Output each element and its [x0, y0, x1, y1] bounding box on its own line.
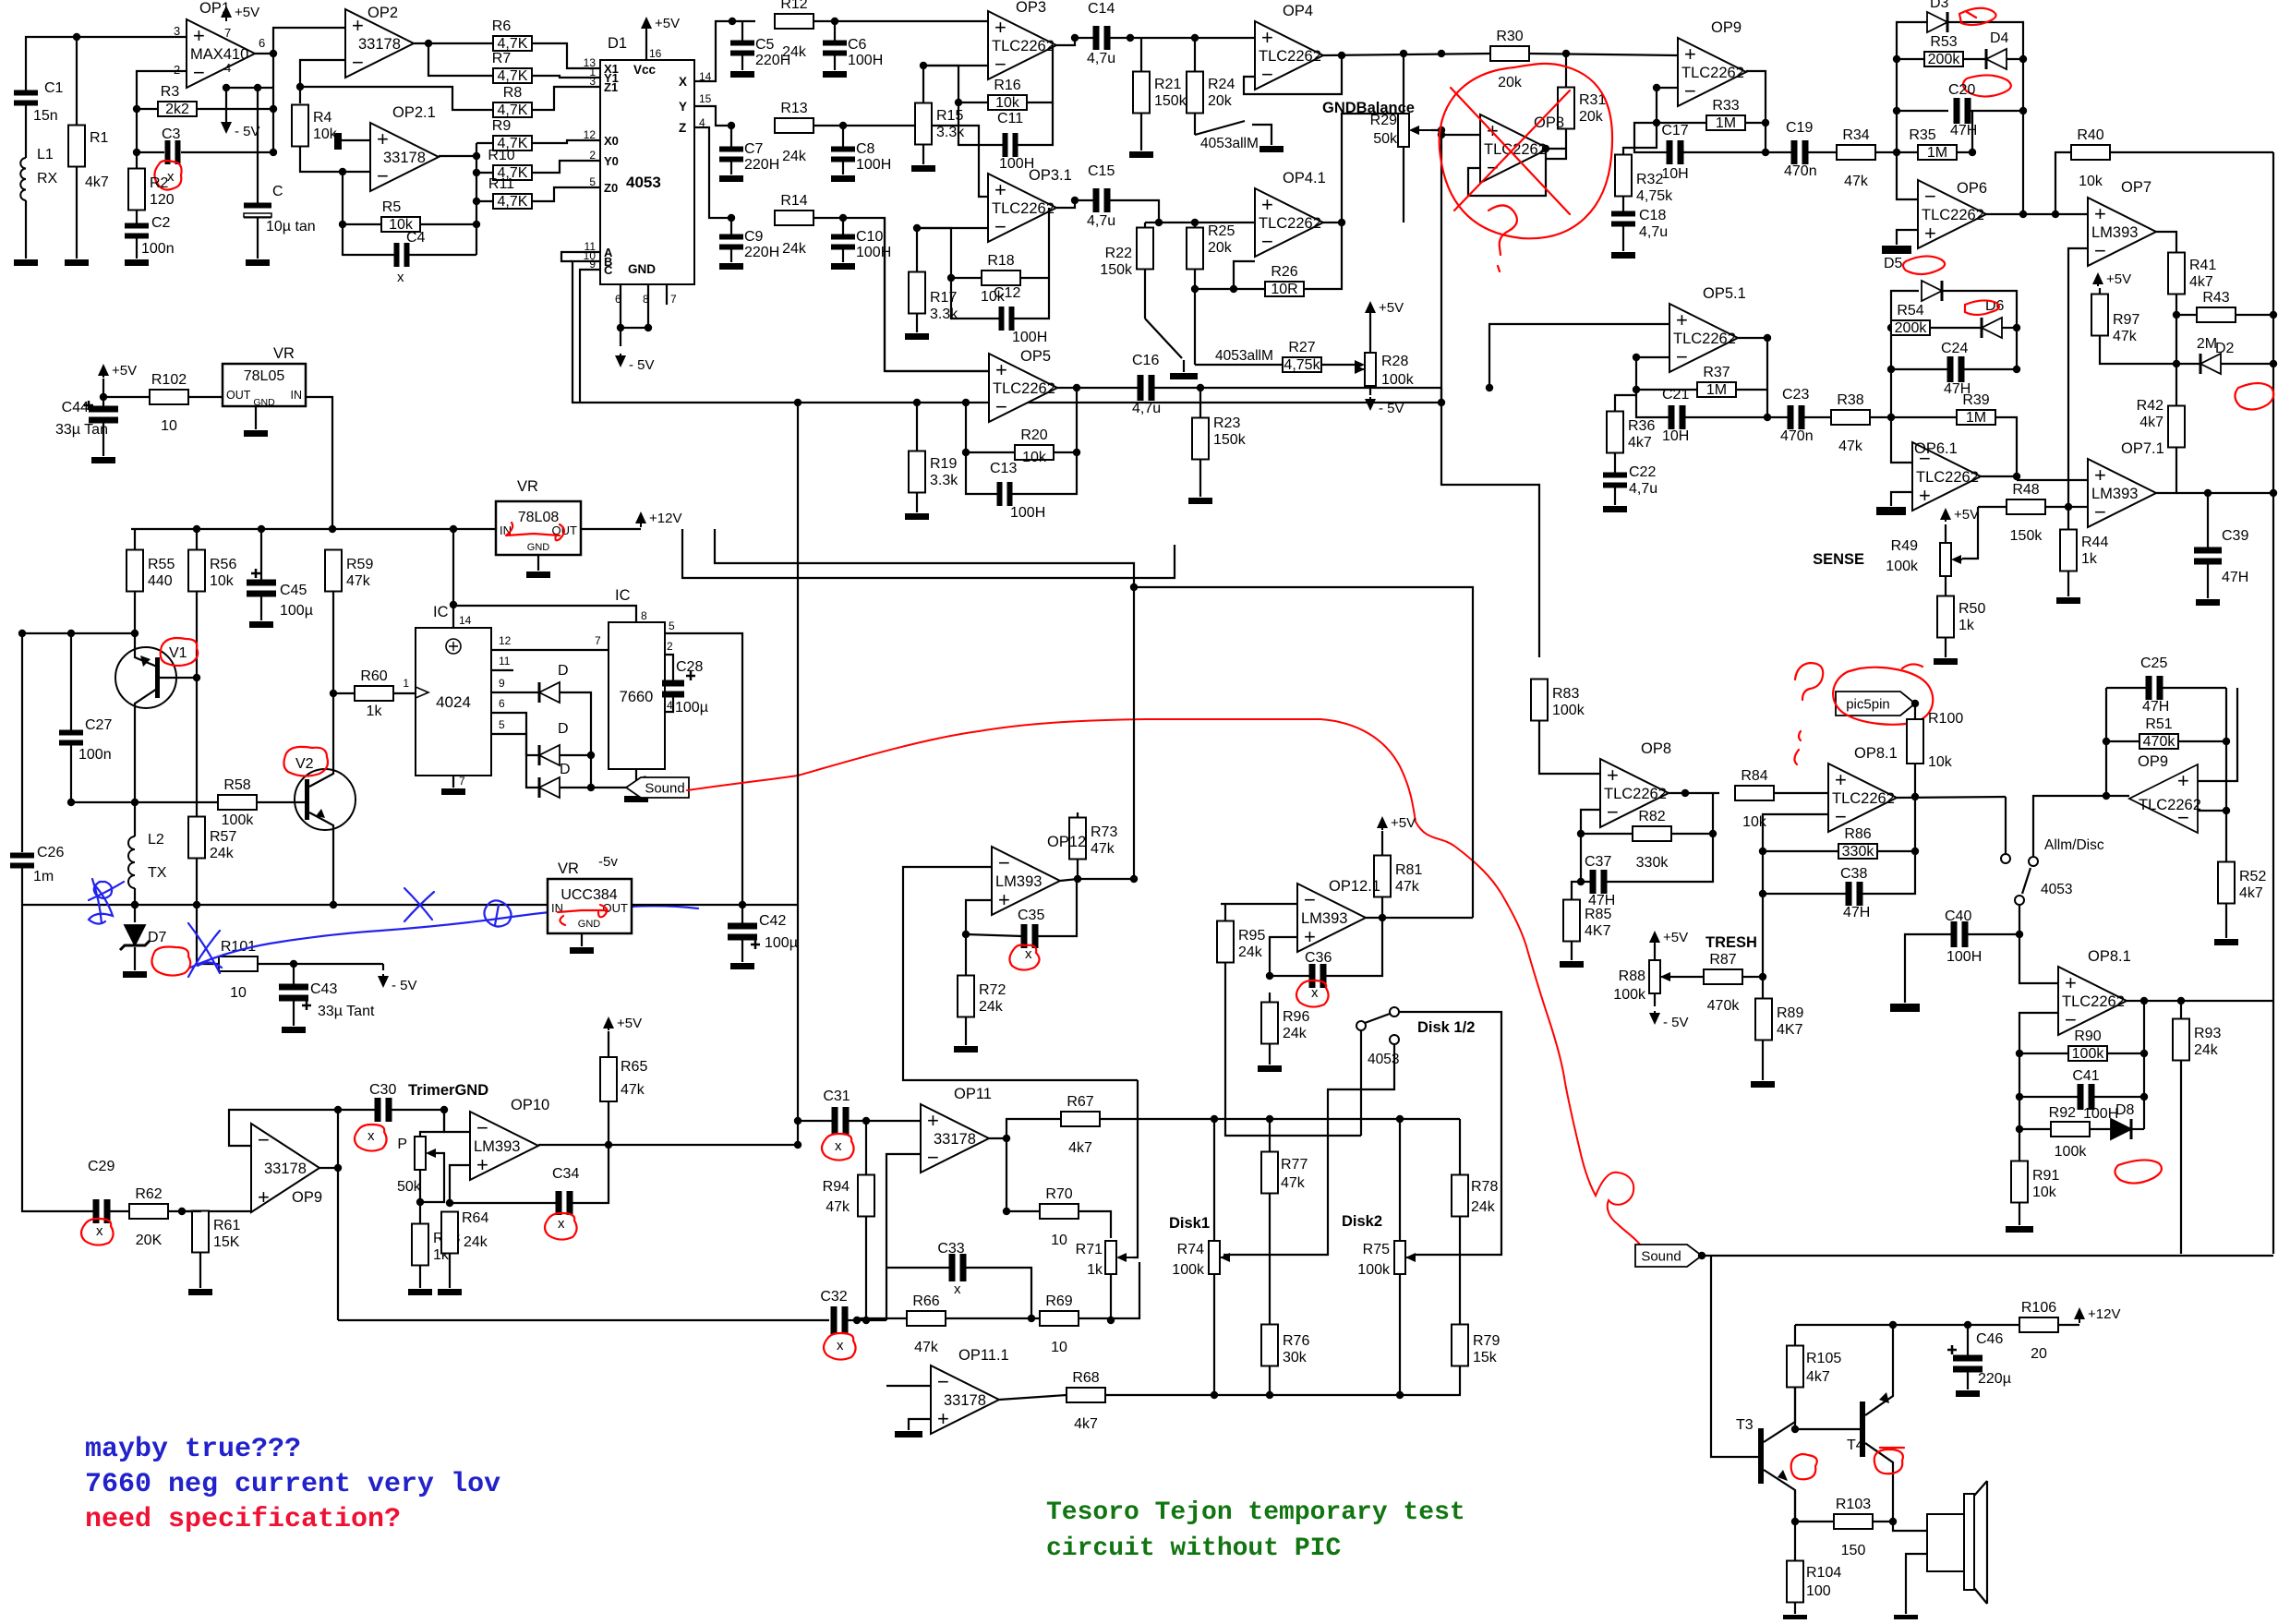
svg-text:6: 6 — [259, 36, 265, 50]
resistor R70 — [1040, 1204, 1079, 1219]
-5V arrow R28 — [1369, 386, 1371, 395]
diode D5 — [1922, 281, 1942, 301]
switch Allm/Disc — [2001, 854, 2010, 863]
wire C42 — [741, 905, 743, 926]
wire R18 left — [917, 228, 982, 278]
svg-text:47k: 47k — [1091, 841, 1115, 857]
svg-text:7: 7 — [670, 293, 677, 306]
+5V arrow C44 — [98, 364, 109, 376]
svg-text:440: 440 — [148, 573, 173, 589]
wire R30 right — [1529, 54, 1678, 55]
svg-text:D: D — [560, 762, 571, 777]
svg-text:TLC2262: TLC2262 — [1916, 469, 1979, 486]
resistor R53 — [1924, 52, 1963, 66]
wire OP11.1 plus gnd — [909, 1419, 931, 1430]
wire Disk switch common — [1360, 1030, 1362, 1136]
wire OP8 plus wiper — [1441, 134, 1480, 136]
wire OP6 plus gnd — [1897, 230, 1918, 245]
svg-text:R106: R106 — [2021, 1300, 2056, 1316]
resistor R96 — [1261, 1003, 1278, 1044]
svg-text:TLC2262: TLC2262 — [1259, 48, 1321, 65]
diode D3 — [1927, 12, 1947, 32]
svg-text:+: + — [2065, 971, 2077, 994]
svg-text:4,75k: 4,75k — [1284, 357, 1320, 373]
resistor R33 — [1706, 115, 1745, 130]
svg-text:R40: R40 — [2077, 127, 2103, 143]
resistor R97 — [2091, 295, 2108, 336]
svg-text:24k: 24k — [979, 999, 1004, 1015]
svg-text:pic5pin: pic5pin — [1846, 697, 1890, 713]
svg-text:OP4.1: OP4.1 — [1283, 170, 1326, 186]
ground R61 — [188, 1289, 212, 1295]
wire R67 right bus — [1100, 1118, 1460, 1120]
resistor R39 — [1957, 410, 1995, 425]
svg-text:C28: C28 — [676, 659, 703, 675]
wire L2 — [134, 802, 136, 836]
svg-text:C40: C40 — [1945, 908, 1971, 924]
capacitor C1 — [14, 90, 38, 96]
svg-text:470k: 470k — [1707, 998, 1741, 1014]
resistor R67 — [1061, 1112, 1100, 1126]
wire C27 — [70, 633, 72, 732]
svg-text:+: + — [2094, 463, 2106, 487]
svg-text:24k: 24k — [1471, 1199, 1496, 1215]
wire 4053 bottom bus right — [1441, 388, 1539, 657]
svg-text:+5V: +5V — [112, 363, 137, 379]
svg-text:R43: R43 — [2202, 290, 2229, 306]
wire OP9b out vertical — [337, 1110, 339, 1320]
ground R21 — [1129, 151, 1153, 158]
svg-text:MAX410: MAX410 — [190, 46, 248, 63]
wire 78L08 gnd — [537, 555, 539, 571]
wire R5 left — [343, 172, 381, 224]
capacitor C7 — [719, 147, 743, 152]
wire C33 — [886, 1267, 950, 1269]
svg-text:C46: C46 — [1976, 1331, 2003, 1347]
wire R3 left — [137, 108, 158, 110]
resistor R93 — [2173, 1019, 2189, 1061]
svg-text:OP9: OP9 — [292, 1189, 322, 1206]
svg-text:x: x — [954, 1281, 961, 1297]
svg-text:R65: R65 — [621, 1059, 647, 1075]
svg-text:Disk 1/2: Disk 1/2 — [1417, 1019, 1475, 1036]
svg-text:C43: C43 — [310, 981, 337, 997]
svg-text:2M: 2M — [2197, 336, 2217, 352]
svg-text:−: − — [1924, 185, 1936, 208]
transistor T3 — [1758, 1428, 1764, 1484]
svg-text:x: x — [397, 270, 404, 285]
wire C4 left — [343, 224, 394, 255]
svg-text:Disk1: Disk1 — [1169, 1215, 1210, 1232]
svg-text:Sound: Sound — [645, 781, 684, 797]
svg-text:x: x — [96, 1223, 103, 1239]
svg-text:C27: C27 — [85, 717, 112, 733]
wire OP12 out — [1060, 879, 1134, 881]
wire OP8.1b minus rail — [2019, 1013, 2058, 1191]
resistor R36 — [1607, 412, 1623, 453]
wire P wiper return — [420, 1153, 444, 1202]
svg-text:−: − — [476, 1116, 488, 1139]
wire C30 — [338, 1109, 376, 1111]
svg-text:LM393: LM393 — [474, 1138, 520, 1155]
svg-text:D: D — [558, 663, 569, 679]
svg-text:−: − — [1684, 79, 1696, 102]
svg-text:R2: R2 — [150, 175, 169, 191]
svg-text:100n: 100n — [78, 747, 112, 763]
svg-text:Vcc: Vcc — [633, 63, 657, 77]
wire R106 — [1968, 1324, 2019, 1326]
svg-text:8: 8 — [643, 293, 649, 306]
svg-text:6: 6 — [615, 293, 621, 306]
svg-text:R70: R70 — [1045, 1186, 1072, 1202]
svg-text:4053: 4053 — [2041, 882, 2072, 897]
wire Disk switch top to R75 wiper — [1399, 1012, 1501, 1255]
svg-text:T3: T3 — [1736, 1417, 1754, 1433]
svg-text:V1: V1 — [169, 645, 187, 661]
resistor R83 — [1531, 680, 1548, 721]
wire to cap C — [226, 87, 273, 89]
svg-text:R78: R78 — [1471, 1179, 1498, 1195]
wire C12 — [951, 278, 999, 319]
red scribble near T4 — [1874, 1448, 1904, 1474]
svg-text:C11: C11 — [997, 111, 1023, 126]
wire R90 — [2019, 1053, 2068, 1054]
svg-text:SENSE: SENSE — [1813, 551, 1864, 568]
ground C42 — [730, 963, 754, 969]
svg-text:−: − — [937, 1370, 949, 1393]
svg-text:x: x — [1025, 946, 1032, 962]
svg-text:50k: 50k — [397, 1179, 422, 1195]
wire R77 — [1269, 1119, 1271, 1151]
wire D2 — [2176, 363, 2200, 365]
resistor R72 — [958, 976, 974, 1017]
wire OP8.1 minus loop — [1763, 814, 1828, 975]
wire R16 left — [923, 66, 988, 102]
wire OP10 out up — [609, 1144, 798, 1146]
svg-text:4k7: 4k7 — [1068, 1140, 1092, 1156]
svg-text:R102: R102 — [151, 372, 187, 388]
svg-text:47k: 47k — [1281, 1175, 1306, 1191]
svg-text:9: 9 — [499, 677, 505, 690]
wire R4 bottom — [300, 147, 370, 172]
svg-text:6: 6 — [499, 697, 505, 710]
diode D a — [539, 682, 560, 703]
svg-text:R100: R100 — [1928, 711, 1963, 727]
resistor R79 — [1452, 1325, 1468, 1366]
resistor R64 — [441, 1212, 458, 1254]
wire R6 to X1 — [532, 43, 600, 68]
ground C5 — [730, 71, 754, 78]
wire OP5.1 out — [1738, 337, 1767, 339]
wire R95 — [1224, 904, 1226, 921]
svg-text:R50: R50 — [1959, 601, 1985, 617]
svg-text:12: 12 — [499, 634, 512, 647]
wire Y out to R13 — [694, 106, 731, 126]
svg-text:1M: 1M — [1706, 382, 1727, 398]
wire OP9 minus — [1657, 88, 1678, 123]
wire OP3.1 out — [1056, 200, 1094, 208]
op-amp OP9 right — [2129, 764, 2198, 833]
resistor R77 — [1261, 1152, 1278, 1194]
svg-text:R79: R79 — [1473, 1333, 1500, 1349]
svg-text:47k: 47k — [1395, 879, 1420, 895]
ground C22 — [1603, 506, 1627, 512]
resistor R8 — [493, 102, 532, 117]
svg-text:VR: VR — [517, 478, 538, 495]
svg-text:OUT: OUT — [226, 389, 251, 402]
red scribble near D2 — [2235, 383, 2273, 410]
svg-text:+: + — [1607, 764, 1619, 787]
svg-text:100H: 100H — [848, 53, 883, 68]
svg-text:Sound: Sound — [1641, 1249, 1681, 1265]
svg-text:10k: 10k — [210, 573, 235, 589]
svg-text:220H: 220H — [744, 157, 779, 173]
svg-text:C3: C3 — [162, 126, 181, 142]
wire OP12.1 out — [1366, 917, 1473, 919]
svg-text:24k: 24k — [1283, 1026, 1308, 1041]
potentiometer P — [415, 1137, 426, 1170]
wire OP9r minus down — [2225, 811, 2227, 862]
svg-text:+5V: +5V — [617, 1016, 642, 1031]
capacitor C15 — [1093, 188, 1100, 212]
wire L1-gnd — [25, 200, 27, 259]
svg-text:D7: D7 — [148, 930, 167, 945]
svg-text:+: + — [1676, 308, 1688, 331]
svg-text:33178: 33178 — [383, 150, 426, 166]
svg-text:TrimerGND: TrimerGND — [408, 1082, 488, 1099]
svg-text:47k: 47k — [621, 1082, 645, 1098]
wire R36 top — [1615, 395, 1636, 412]
svg-text:x: x — [1311, 985, 1319, 1001]
wire OP11 out down — [1006, 1138, 1007, 1211]
svg-text:−: − — [995, 395, 1007, 418]
wire R12-C6 — [814, 20, 988, 22]
resistor R35 — [1918, 145, 1957, 160]
svg-text:+: + — [994, 178, 1006, 201]
capacitor C17 — [1667, 140, 1673, 164]
svg-text:−: − — [927, 1146, 939, 1169]
svg-text:R35: R35 — [1909, 127, 1935, 143]
svg-text:4k7: 4k7 — [85, 174, 109, 190]
svg-text:R29: R29 — [1370, 113, 1397, 128]
resistor R3 — [158, 102, 197, 116]
svg-text:7: 7 — [224, 26, 231, 40]
potentiometer R28 — [1365, 353, 1376, 386]
svg-text:+: + — [995, 358, 1007, 381]
diode D6 — [1982, 318, 2002, 338]
pin 3 7660 gnd — [635, 769, 637, 795]
wire C14 right — [1109, 37, 1255, 39]
svg-text:C25: C25 — [2140, 656, 2167, 671]
svg-text:100k: 100k — [1552, 703, 1585, 718]
potentiometer R71 — [1105, 1241, 1116, 1274]
resistor R34 — [1837, 145, 1875, 160]
svg-text:R97: R97 — [2113, 312, 2139, 328]
svg-text:4K7: 4K7 — [1777, 1022, 1803, 1038]
svg-text:R55: R55 — [148, 557, 175, 572]
svg-text:R60: R60 — [360, 668, 387, 684]
wire R48 — [1978, 506, 2007, 508]
svg-text:470n: 470n — [1780, 428, 1814, 444]
wire C20 right — [1970, 110, 2023, 112]
wire C2-gnd — [136, 237, 138, 259]
svg-text:TLC2262: TLC2262 — [1681, 65, 1744, 81]
wire OP9r minus — [2198, 688, 2226, 811]
wire Sound2 down to T3 — [1711, 1256, 1758, 1457]
op-amp OP8 crossed — [1480, 114, 1549, 183]
svg-text:R89: R89 — [1777, 1005, 1803, 1021]
svg-text:OP9: OP9 — [2138, 753, 2168, 770]
svg-text:100n: 100n — [141, 241, 175, 257]
svg-text:−: − — [1261, 230, 1273, 253]
svg-text:TLC2262: TLC2262 — [1259, 215, 1321, 232]
svg-text:R36: R36 — [1628, 418, 1655, 434]
wire to R9 — [476, 142, 493, 144]
wire R78 — [1459, 1119, 1461, 1174]
svg-text:8: 8 — [641, 609, 647, 622]
wire OP7.1 out — [2156, 448, 2176, 493]
svg-text:C14: C14 — [1088, 1, 1115, 17]
svg-text:X0: X0 — [604, 134, 619, 148]
svg-text:47H: 47H — [1944, 381, 1971, 397]
resistor R50 — [1937, 596, 1954, 638]
capacitor C16 — [1138, 375, 1144, 401]
ground C — [246, 259, 270, 266]
svg-text:4K7: 4K7 — [1585, 923, 1611, 939]
svg-text:15: 15 — [699, 92, 712, 105]
vertical x864 long — [797, 403, 799, 1145]
resistor R56 — [188, 550, 205, 592]
svg-text:20k: 20k — [1498, 75, 1523, 90]
ground C45 — [249, 621, 273, 628]
wire OP10 out — [538, 1144, 609, 1146]
svg-text:4k7: 4k7 — [1806, 1369, 1830, 1385]
op-amp OP12.1 — [1297, 884, 1366, 952]
svg-text:−: − — [1676, 345, 1688, 368]
svg-text:TLC2262: TLC2262 — [1673, 331, 1736, 347]
svg-text:D2: D2 — [2215, 341, 2235, 356]
wire R96 — [1269, 992, 1271, 1003]
wire R101 left — [197, 905, 219, 964]
svg-text:47H: 47H — [2142, 699, 2169, 715]
svg-text:R38: R38 — [1837, 392, 1863, 408]
svg-text:C16: C16 — [1132, 353, 1159, 368]
svg-text:10k: 10k — [1928, 754, 1953, 770]
resistor R20 — [1015, 445, 1054, 460]
wire OP2 out down to R7 — [428, 43, 493, 76]
ground C8 — [831, 175, 855, 182]
wire OP8 out to R31 — [1549, 148, 1566, 150]
resistor R27 — [1283, 357, 1321, 372]
svg-text:C37: C37 — [1585, 854, 1611, 870]
wire R20 left — [966, 451, 1015, 453]
wire R41 bottom — [2175, 295, 2177, 397]
capacitor C3 — [165, 140, 171, 164]
svg-text:TLC2262: TLC2262 — [992, 200, 1055, 217]
svg-text:R84: R84 — [1741, 768, 1767, 784]
svg-text:C18: C18 — [1639, 208, 1666, 223]
svg-text:OP8.1: OP8.1 — [2088, 948, 2131, 965]
svg-text:4: 4 — [224, 61, 231, 75]
svg-text:R8: R8 — [503, 85, 523, 101]
pin 16 Vcc stub — [645, 30, 647, 60]
resistor R31 — [1558, 88, 1574, 129]
wire R5 right — [420, 223, 476, 225]
wire R26 — [1195, 288, 1265, 290]
wire R9 to X0 — [532, 140, 600, 143]
flag Sound 1 — [626, 777, 689, 798]
svg-text:R21: R21 — [1154, 77, 1181, 92]
capacitor C14 — [1093, 26, 1100, 50]
svg-text:R26: R26 — [1271, 264, 1297, 280]
resistor R51 — [2139, 734, 2178, 749]
red scribble near D3 — [1959, 8, 1996, 25]
svg-text:4024: 4024 — [436, 693, 471, 711]
inductor L1 — [20, 158, 26, 200]
svg-text:TLC2262: TLC2262 — [993, 380, 1055, 397]
capacitor C6 — [823, 41, 847, 46]
svg-text:1m: 1m — [33, 869, 54, 884]
capacitor C34 — [556, 1191, 562, 1215]
wire R44 gnd — [2067, 571, 2069, 596]
svg-text:TLC2262: TLC2262 — [992, 38, 1055, 54]
wire UCC384 out — [632, 904, 798, 906]
wire OP9r left rail — [2105, 688, 2107, 796]
capacitor C42 polarized — [728, 923, 757, 930]
inductor L2 — [128, 836, 135, 888]
capacitor C23 — [1788, 405, 1794, 429]
wire C34 — [450, 1202, 557, 1204]
wire C30 to OP10 minus — [444, 1110, 470, 1132]
svg-text:−: − — [998, 851, 1010, 874]
resistor R43 — [2197, 307, 2236, 322]
svg-text:R6: R6 — [492, 18, 512, 34]
svg-text:OP11: OP11 — [954, 1086, 992, 1102]
wire R8 to Z1 — [532, 87, 600, 110]
capacitor C13 — [997, 482, 1003, 506]
wire R35 right — [1957, 151, 1972, 153]
svg-text:OP12.1: OP12.1 — [1329, 878, 1380, 895]
resistor R86 — [1838, 844, 1877, 859]
svg-text:R32: R32 — [1636, 172, 1663, 187]
svg-text:GND: GND — [527, 542, 550, 553]
main bus y980 — [22, 904, 548, 906]
svg-text:V2: V2 — [295, 756, 314, 772]
pin 14 4024 — [452, 605, 454, 628]
ground C44 — [91, 457, 115, 463]
+5V arrow R65 — [603, 1017, 614, 1029]
resistor R11 — [493, 194, 532, 209]
svg-text:- 5V: - 5V — [629, 357, 655, 373]
svg-text:24k: 24k — [2194, 1042, 2219, 1058]
svg-text:1M: 1M — [1927, 145, 1947, 161]
wire base row — [71, 801, 218, 803]
svg-text:4,7u: 4,7u — [1087, 51, 1115, 66]
svg-text:−: − — [2094, 500, 2106, 523]
resistor R106 — [2019, 1317, 2058, 1332]
svg-text:100µ: 100µ — [675, 700, 708, 716]
svg-text:4,7K: 4,7K — [498, 194, 528, 210]
svg-text:R19: R19 — [930, 456, 957, 472]
svg-text:+: + — [998, 888, 1010, 911]
resistor R41 — [2168, 253, 2185, 295]
+5V arrow OP1 — [221, 6, 232, 18]
resistor R42 — [2168, 406, 2185, 448]
capacitor C40 — [1951, 921, 1958, 947]
resistor R9 — [493, 136, 532, 150]
svg-text:−: − — [1607, 800, 1619, 824]
svg-text:2: 2 — [589, 149, 596, 162]
